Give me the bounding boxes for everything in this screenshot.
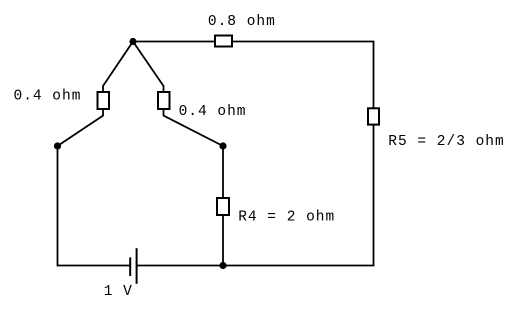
svg-text:R5 = 2/3 ohm: R5 = 2/3 ohm xyxy=(388,134,504,150)
svg-text:R4 = 2 ohm: R4 = 2 ohm xyxy=(238,210,335,226)
svg-text:0.4 ohm: 0.4 ohm xyxy=(179,104,247,120)
svg-text:1 V: 1 V xyxy=(104,284,133,300)
svg-text:0.4 ohm: 0.4 ohm xyxy=(14,89,82,105)
svg-text:0.8 ohm: 0.8 ohm xyxy=(208,14,276,30)
